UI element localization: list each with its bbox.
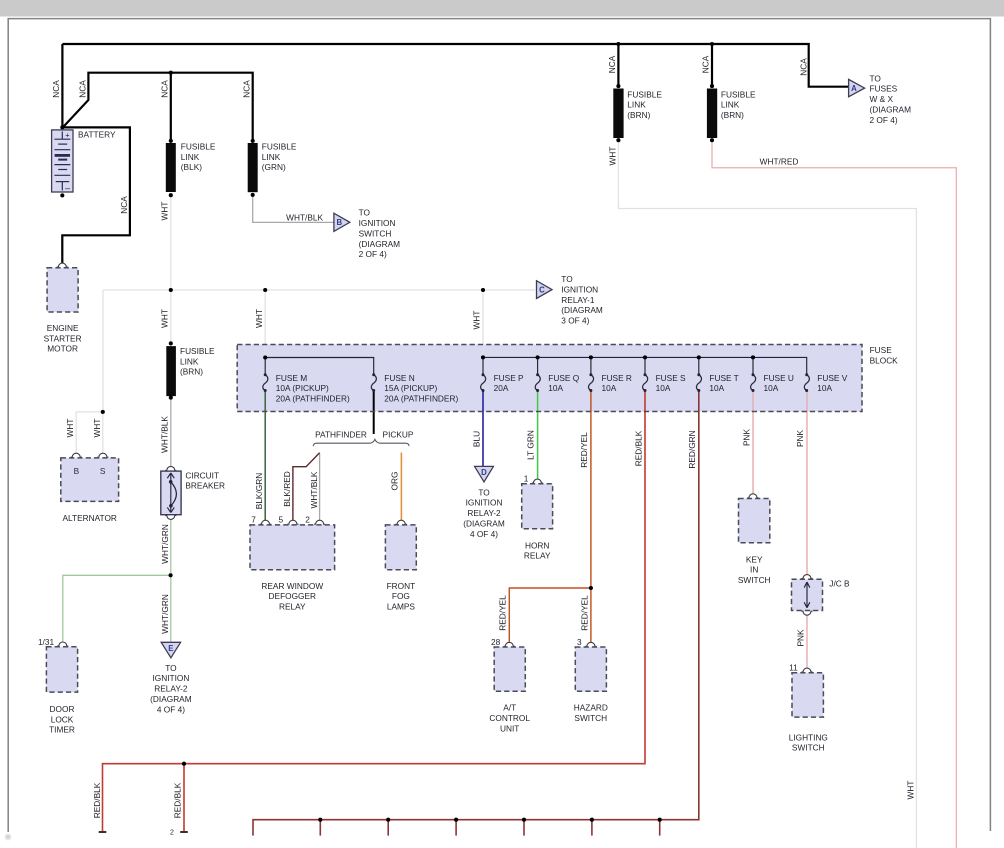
svg-text:10A: 10A [656, 383, 671, 393]
svg-text:RED/YEL: RED/YEL [579, 595, 589, 631]
svg-text:WHT: WHT [159, 309, 169, 328]
svg-text:HAZARD: HAZARD [574, 703, 608, 713]
svg-text:FUSE T: FUSE T [709, 373, 738, 383]
node internal bus at fuse T [697, 355, 701, 359]
svg-text:MOTOR: MOTOR [47, 344, 78, 354]
wire RED/GRN fuse T down to second bottom bus [253, 391, 699, 836]
lighting switch [789, 663, 828, 753]
svg-text:10A: 10A [709, 383, 724, 393]
fuse S [643, 373, 686, 393]
wire LT GRN fuse Q to horn relay pin 1 [537, 391, 539, 480]
svg-text:SWITCH: SWITCH [359, 228, 392, 238]
rear window defogger relay [250, 515, 335, 612]
svg-text:NCA: NCA [119, 196, 129, 214]
svg-text:FUSIBLE: FUSIBLE [262, 142, 297, 152]
svg-text:15A (PICKUP): 15A (PICKUP) [384, 383, 437, 393]
svg-text:3: 3 [577, 637, 582, 647]
wire PNK fuse U to key in switch [752, 391, 754, 494]
node WHT bus junction at fuse M drop [263, 288, 267, 292]
svg-text:7: 7 [251, 515, 256, 525]
node internal bus at fuse M [263, 355, 267, 359]
wire RED/BLK drop with terminal bar [183, 764, 185, 832]
horn relay [522, 474, 553, 561]
svg-text:PICKUP: PICKUP [383, 430, 414, 440]
svg-text:(BRN): (BRN) [627, 110, 650, 120]
svg-text:LIGHTING: LIGHTING [789, 732, 828, 742]
node battery positive junction [60, 125, 64, 129]
wire WHT branch to alternator B terminal [76, 412, 103, 453]
arrow C to ignition relay-1 [537, 274, 603, 326]
svg-text:WHT: WHT [472, 311, 482, 330]
svg-text:LINK: LINK [627, 100, 646, 110]
svg-text:RED/GRN: RED/GRN [687, 430, 697, 468]
node RED/YEL branch junction [589, 586, 593, 590]
svg-text:WHT/BLK: WHT/BLK [309, 471, 319, 508]
svg-text:CIRCUIT: CIRCUIT [185, 470, 219, 480]
hazard switch [574, 637, 608, 723]
wire WHT left drop to alternator junction [102, 290, 104, 412]
model split brace [313, 439, 409, 446]
front fog lamps [385, 520, 416, 611]
node RED/GRN bus junction 6 [658, 818, 662, 822]
svg-text:E: E [168, 644, 173, 653]
svg-text:20A (PATHFINDER): 20A (PATHFINDER) [384, 394, 458, 404]
wire WHT horizontal bus to arrow C [103, 289, 535, 291]
junction connector B [792, 575, 851, 616]
arrow E to ignition relay-2 [150, 642, 192, 714]
svg-text:UNIT: UNIT [500, 724, 519, 734]
wire WHT/BLK from fusible link BRN to circuit breaker [170, 398, 172, 467]
svg-text:FUSE R: FUSE R [602, 373, 632, 383]
svg-text:NCA: NCA [160, 80, 170, 98]
svg-text:10A: 10A [548, 383, 563, 393]
door lock timer [38, 637, 78, 734]
svg-text:4 OF 4): 4 OF 4) [470, 529, 498, 539]
svg-text:BLK/GRN: BLK/GRN [254, 473, 264, 509]
wire NCA second bus to fusible links BLK/GRN [63, 73, 253, 141]
svg-text:+: + [65, 131, 70, 140]
svg-text:–: – [65, 183, 70, 193]
svg-text:SWITCH: SWITCH [574, 713, 607, 723]
terminal bar left RED/BLK [99, 831, 107, 833]
node RED/GRN bus junction 5 [590, 818, 594, 822]
svg-text:1: 1 [524, 474, 529, 484]
svg-text:REAR WINDOW: REAR WINDOW [261, 581, 323, 591]
svg-text:2 OF 4): 2 OF 4) [870, 115, 898, 125]
svg-text:D: D [481, 468, 487, 477]
fusible link BRN right 1 [613, 84, 662, 142]
fusible link BRN right 2 [707, 84, 756, 142]
svg-text:SWITCH: SWITCH [738, 575, 771, 585]
circuit breaker [161, 466, 225, 519]
svg-text:WHT/BLK: WHT/BLK [159, 416, 169, 453]
svg-text:TO: TO [359, 208, 371, 218]
svg-text:SWITCH: SWITCH [792, 743, 825, 753]
wire BLK fuse N to model brace [373, 391, 375, 435]
svg-text:20A: 20A [494, 383, 509, 393]
svg-text:BLOCK: BLOCK [870, 356, 899, 366]
node internal bus at fuse Q [536, 355, 540, 359]
A/T control unit [489, 637, 530, 734]
wire NCA top bus from battery to arrow A [62, 44, 848, 87]
svg-text:PNK: PNK [795, 430, 805, 448]
fuse V [804, 373, 847, 393]
node WHT alternator branch junction [101, 410, 105, 414]
svg-text:FUSE P: FUSE P [494, 373, 524, 383]
svg-text:CONTROL: CONTROL [489, 713, 530, 723]
svg-text:IGNITION: IGNITION [561, 284, 598, 294]
fuse N [371, 373, 458, 404]
svg-text:(GRN): (GRN) [262, 162, 286, 172]
header gray band [0, 0, 1004, 17]
battery [52, 129, 116, 193]
arrow A to fuses W and X [849, 73, 911, 125]
svg-text:(DIAGRAM: (DIAGRAM [463, 519, 505, 529]
svg-text:NCA: NCA [51, 80, 61, 98]
arrow D to ignition relay-2 [463, 466, 505, 539]
wire WHT long run from fusible link BRN right 1 down right side [618, 140, 916, 848]
svg-text:DEFOGGER: DEFOGGER [269, 591, 316, 601]
node WHT bus junction at fuse P drop [481, 288, 485, 292]
svg-text:RELAY-2: RELAY-2 [154, 684, 188, 694]
svg-text:RELAY-1: RELAY-1 [561, 295, 595, 305]
svg-text:WHT: WHT [254, 309, 264, 328]
wire PNK junction connector B to lighting switch pin 11 [806, 615, 808, 668]
wire WHT drop to fuse P [482, 290, 484, 357]
alternator [61, 453, 119, 523]
svg-text:RED/YEL: RED/YEL [579, 432, 589, 468]
node battery negative terminal [60, 193, 64, 197]
svg-text:RED/BLK: RED/BLK [173, 782, 183, 818]
svg-text:(DIAGRAM: (DIAGRAM [359, 239, 401, 249]
svg-text:(DIAGRAM: (DIAGRAM [870, 105, 912, 115]
svg-text:TO: TO [165, 663, 177, 673]
svg-text:NCA: NCA [607, 55, 617, 73]
svg-text:IGNITION: IGNITION [152, 673, 189, 683]
svg-text:PNK: PNK [742, 429, 752, 447]
svg-text:20A (PATHFINDER): 20A (PATHFINDER) [276, 394, 350, 404]
svg-text:LINK: LINK [180, 356, 199, 366]
node internal bus at fuse P [481, 355, 485, 359]
wire WHT/GRN from circuit breaker to arrow E [170, 519, 172, 642]
wire stub 3 on RED/GRN bus [455, 820, 457, 836]
wire WHT/BLK pathfinder branch to defogger relay pin 2 [319, 453, 321, 520]
node RED/GRN bus junction 4 [522, 818, 526, 822]
svg-text:RELAY-2: RELAY-2 [467, 508, 501, 518]
svg-text:3 OF 4): 3 OF 4) [561, 316, 589, 326]
svg-text:WHT: WHT [159, 202, 169, 221]
svg-text:RED/BLK: RED/BLK [92, 782, 102, 818]
svg-text:FUSE Q: FUSE Q [548, 373, 579, 383]
node RED/GRN bus junction 3 [454, 818, 458, 822]
node WHT/GRN branch junction [169, 573, 173, 577]
svg-text:FUSIBLE: FUSIBLE [627, 89, 662, 99]
svg-text:LOCK: LOCK [51, 714, 74, 724]
svg-text:10A: 10A [764, 383, 779, 393]
svg-text:STARTER: STARTER [44, 333, 82, 343]
wire WHT/RED long run from fusible link BRN right 2 down right side [712, 140, 956, 848]
node WHT bus junction at x170 [169, 288, 173, 292]
svg-text:(BRN): (BRN) [180, 367, 203, 377]
node internal bus at fuse R [589, 355, 593, 359]
wire stub 2 on RED/GRN bus [387, 820, 389, 836]
svg-text:FUSE N: FUSE N [384, 373, 414, 383]
wire WHT from fusible link BLK through bus to fusible link BRN [170, 195, 172, 343]
node internal bus at fuse U [751, 355, 755, 359]
svg-text:WHT: WHT [92, 419, 102, 438]
wire BLK/RED tap to defogger relay pin 5 [293, 453, 320, 520]
svg-text:(BLK): (BLK) [181, 162, 202, 172]
wire WHT to alternator S terminal [102, 412, 104, 453]
svg-text:2: 2 [170, 829, 174, 836]
svg-text:WHT: WHT [607, 147, 617, 166]
svg-text:TO: TO [561, 274, 573, 284]
svg-text:IN: IN [750, 565, 758, 575]
fuse M [263, 373, 350, 404]
terminal bar right RED/BLK [180, 831, 188, 833]
svg-text:WHT: WHT [905, 781, 915, 800]
engine starter motor [44, 263, 82, 354]
svg-text:RED/YEL: RED/YEL [498, 595, 508, 631]
wire RED/YEL branch to A/T control unit pin 28 [509, 588, 591, 642]
svg-text:FUSIBLE: FUSIBLE [181, 142, 216, 152]
svg-text:(BRN): (BRN) [721, 110, 744, 120]
svg-text:WHT/BLK: WHT/BLK [286, 212, 323, 222]
node RED/GRN bus junction 1 [318, 818, 322, 822]
wire NCA battery positive drop [61, 44, 63, 127]
wire stub 1 on RED/GRN bus [319, 820, 321, 836]
wire NCA drop to fusible link BLK [170, 73, 172, 141]
wire NCA drop to fusible link BRN right 1 [617, 44, 619, 86]
svg-text:FUSIBLE: FUSIBLE [180, 346, 215, 356]
wire NCA battery loop to starter motor [62, 127, 130, 263]
node RED/BLK bottom bus junction [182, 762, 186, 766]
fusible link GRN [248, 139, 297, 197]
svg-text:KEY: KEY [746, 554, 763, 564]
svg-text:28: 28 [491, 637, 501, 647]
svg-text:IGNITION: IGNITION [466, 498, 503, 508]
svg-text:FOG: FOG [392, 591, 410, 601]
svg-text:LINK: LINK [262, 152, 281, 162]
fuse Q [535, 373, 580, 393]
svg-text:LINK: LINK [721, 100, 740, 110]
svg-text:1/31: 1/31 [38, 637, 55, 647]
wire stub 5 on RED/GRN bus [591, 820, 593, 836]
svg-text:NCA: NCA [799, 58, 809, 76]
svg-text:J/C B: J/C B [829, 579, 850, 589]
svg-text:IGNITION: IGNITION [359, 218, 396, 228]
arrow B to ignition switch [334, 208, 400, 260]
wire BLU fuse P to arrow D [482, 391, 484, 467]
svg-text:2 OF 4): 2 OF 4) [359, 249, 387, 259]
wire ORG pickup branch to front fog lamps [400, 453, 402, 521]
svg-text:FUSE U: FUSE U [764, 373, 794, 383]
fusible link BRN left [166, 341, 215, 399]
node internal bus at fuse S [643, 355, 647, 359]
svg-text:WHT: WHT [65, 419, 75, 438]
svg-text:S: S [100, 466, 106, 476]
svg-text:TO: TO [870, 73, 882, 83]
svg-text:BLK/RED: BLK/RED [282, 471, 292, 507]
svg-text:LT GRN: LT GRN [526, 430, 536, 460]
svg-text:NCA: NCA [242, 80, 252, 98]
svg-text:WHT/GRN: WHT/GRN [160, 524, 170, 564]
svg-text:TO: TO [478, 487, 490, 497]
key in switch [738, 494, 771, 585]
svg-text:TIMER: TIMER [49, 725, 75, 735]
svg-text:PATHFINDER: PATHFINDER [315, 430, 367, 440]
svg-text:ENGINE: ENGINE [47, 323, 79, 333]
wire NCA drop to fusible link BRN right 2 [711, 44, 713, 86]
svg-text:RELAY: RELAY [524, 551, 551, 561]
node RED/GRN bus junction 2 [386, 818, 390, 822]
svg-text:11: 11 [789, 663, 798, 673]
wire stub 6 on RED/GRN bus [659, 820, 661, 836]
svg-text:W & X: W & X [870, 94, 894, 104]
svg-text:PNK: PNK [796, 629, 806, 647]
svg-text:LAMPS: LAMPS [387, 602, 416, 612]
svg-text:NCA: NCA [701, 55, 711, 73]
svg-text:ORG: ORG [390, 472, 400, 491]
svg-text:BATTERY: BATTERY [78, 129, 116, 139]
fuse P [481, 373, 524, 393]
fuse U [751, 373, 794, 393]
svg-text:FUSE: FUSE [870, 345, 893, 355]
fold mark bottom left [5, 834, 12, 841]
svg-text:FUSE S: FUSE S [656, 373, 686, 383]
svg-text:10A: 10A [817, 383, 832, 393]
node NCA bus junction at fusible link BLK [169, 71, 173, 75]
wire WHT/BLK from fusible link GRN to arrow B [253, 195, 334, 223]
svg-text:4 OF 4): 4 OF 4) [157, 704, 185, 714]
svg-text:A: A [851, 84, 857, 93]
svg-text:FUSE M: FUSE M [276, 373, 307, 383]
svg-text:FUSE V: FUSE V [817, 373, 847, 383]
wire fuse block internal bus M-N [265, 358, 374, 375]
svg-text:C: C [539, 286, 545, 295]
fuse block [237, 345, 898, 412]
svg-text:2: 2 [305, 515, 310, 525]
svg-text:BREAKER: BREAKER [185, 481, 225, 491]
fusible link BLK [166, 139, 216, 197]
node top bus junction BRN link 1 [616, 42, 620, 46]
svg-text:LINK: LINK [181, 152, 200, 162]
svg-text:DOOR: DOOR [50, 704, 75, 714]
svg-text:ALTERNATOR: ALTERNATOR [62, 513, 116, 523]
svg-text:RELAY: RELAY [279, 602, 306, 612]
node top bus junction BRN link 2 [710, 42, 714, 46]
fuse R [589, 373, 632, 393]
wire stub 4 on RED/GRN bus [523, 820, 525, 836]
wire RED/YEL fuse R down to hazard switch pin 3 [590, 391, 592, 643]
svg-text:WHT/GRN: WHT/GRN [160, 594, 170, 634]
wire PNK fuse V to junction connector B [806, 391, 808, 575]
svg-text:HORN: HORN [525, 540, 549, 550]
wire fuse block internal bus P-V [483, 357, 807, 374]
svg-text:10A: 10A [602, 383, 617, 393]
svg-text:B: B [336, 218, 342, 227]
svg-text:5: 5 [278, 515, 283, 525]
svg-text:FUSIBLE: FUSIBLE [721, 89, 756, 99]
svg-text:NCA: NCA [78, 80, 88, 98]
fuse block fill underlay [237, 345, 862, 412]
wire WHT/GRN branch to door lock timer [63, 575, 171, 642]
svg-text:RED/BLK: RED/BLK [633, 430, 643, 466]
svg-text:FUSES: FUSES [870, 84, 898, 94]
svg-text:WHT/RED: WHT/RED [760, 156, 799, 166]
svg-text:(DIAGRAM: (DIAGRAM [150, 694, 192, 704]
wire RED/BLK fuse S down to bottom bus [103, 391, 646, 832]
svg-text:FRONT: FRONT [387, 581, 416, 591]
wire BLK/GRN fuse M to defogger relay pin 7 [264, 391, 266, 521]
svg-text:(DIAGRAM: (DIAGRAM [561, 305, 603, 315]
svg-text:10A (PICKUP): 10A (PICKUP) [276, 383, 329, 393]
svg-text:B: B [74, 466, 80, 476]
wire WHT drop to fuse M [264, 290, 266, 358]
svg-text:BLU: BLU [471, 431, 481, 447]
fuse T [696, 373, 738, 393]
svg-text:A/T: A/T [503, 703, 516, 713]
